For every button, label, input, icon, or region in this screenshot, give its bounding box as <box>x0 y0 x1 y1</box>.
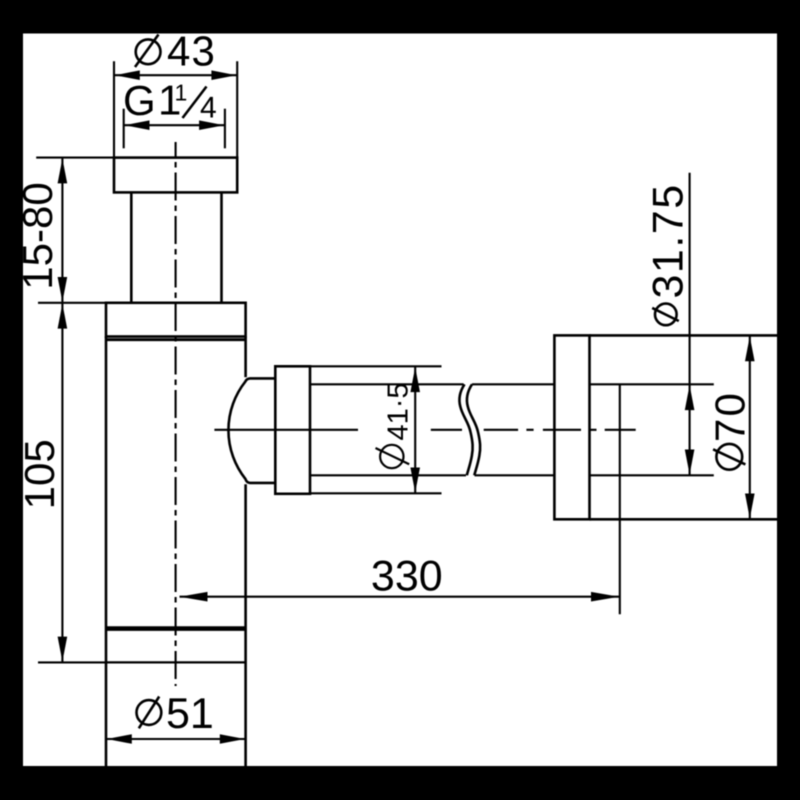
pipe break curve right <box>467 384 480 475</box>
dim 105 line <box>61 303 63 663</box>
arrowhead O41.5 bottom <box>410 468 420 493</box>
label O70 (rotated) <box>707 391 754 470</box>
arrowhead O31.75 top <box>685 385 695 410</box>
dim 330 line <box>180 596 620 598</box>
arrowhead O70 top <box>745 336 755 361</box>
arrowhead G right <box>199 120 224 130</box>
inlet pipe left wall <box>130 192 133 302</box>
collar edge extension top (O41.5 ref) <box>310 365 442 367</box>
dim O70 line <box>749 335 751 519</box>
dim O43 extension left <box>113 61 115 157</box>
arrowhead 105 bottom <box>58 637 68 662</box>
inlet pipe right wall <box>220 192 223 302</box>
arrowhead 330 left <box>180 592 208 602</box>
vertical centerline of trap body <box>175 142 177 686</box>
svg-text:4: 4 <box>200 92 217 125</box>
dim O31.75 extension <box>689 173 691 384</box>
dim O31.75 arrow shaft <box>689 385 691 475</box>
label O51 <box>137 690 214 738</box>
body bottom seam (heavy) <box>106 626 246 631</box>
label O43 <box>135 28 216 75</box>
svg-text:330: 330 <box>371 553 443 601</box>
svg-text:70: 70 <box>707 391 754 442</box>
svg-text:43: 43 <box>167 28 216 75</box>
svg-text:1: 1 <box>175 80 188 106</box>
horizontal centerline of outlet pipe <box>214 429 635 431</box>
label O31.75 (rotated) <box>644 183 692 325</box>
arrowhead O51 right <box>220 734 245 744</box>
arrowhead 15-80 bottom <box>58 277 68 302</box>
outlet nut collar <box>275 366 310 494</box>
body left wall <box>105 337 108 767</box>
arrowhead O70 bottom <box>745 494 755 519</box>
pipe break curve left <box>459 384 472 475</box>
body top seam (heavy) <box>106 338 246 341</box>
dim O43 extension right <box>236 61 238 157</box>
svg-text:41·5: 41·5 <box>383 382 415 440</box>
dim O41.5 arrow shaft <box>414 366 416 493</box>
dim 15-80 extension top <box>36 157 114 159</box>
wall flange collar <box>554 335 589 519</box>
dim 105 extension bottom <box>38 661 106 663</box>
dim O51 line <box>106 738 246 740</box>
arrowhead 15-80 top <box>58 158 68 183</box>
arrowhead O43 right <box>211 70 236 80</box>
body bottom cap line <box>106 661 246 663</box>
arrowhead O43 left <box>115 70 140 80</box>
dim 15-80 extension bottom <box>38 302 106 304</box>
dim O43 line <box>114 74 237 76</box>
label G 1 1/4 <box>123 77 217 125</box>
body right wall upper <box>244 337 247 378</box>
arrowhead O51 left <box>107 734 132 744</box>
dim 15-80 line <box>61 158 63 303</box>
pipe tube bottom wall <box>310 474 714 476</box>
collar edge extension bottom (O41.5 ref) <box>310 492 442 494</box>
pipe tube top wall <box>310 383 714 385</box>
arrowhead O41.5 top <box>410 367 420 392</box>
svg-text:15-80: 15-80 <box>14 182 61 289</box>
dim G extension left <box>123 109 125 149</box>
wall flange bottom edge <box>590 518 778 521</box>
label O41.5 (rotated, small) <box>376 382 415 468</box>
dim G extension right <box>224 109 226 149</box>
top nut G 1 1/4 <box>114 158 237 193</box>
arrowhead O31.75 bottom <box>685 450 695 475</box>
dim G line <box>124 124 225 126</box>
wall flange top edge <box>590 334 778 337</box>
arrowhead 330 right <box>591 592 619 602</box>
outlet dome bulge <box>228 378 275 483</box>
arrowhead 105 top <box>58 304 68 329</box>
svg-text:51: 51 <box>166 690 214 738</box>
svg-text:105: 105 <box>16 439 63 509</box>
body right wall lower <box>244 484 247 766</box>
body top cap <box>106 303 246 337</box>
svg-text:31.75: 31.75 <box>644 183 692 298</box>
arrowhead G left <box>125 120 150 130</box>
svg-text:G: G <box>123 77 156 124</box>
pipe end / 330 extension line <box>619 385 621 614</box>
